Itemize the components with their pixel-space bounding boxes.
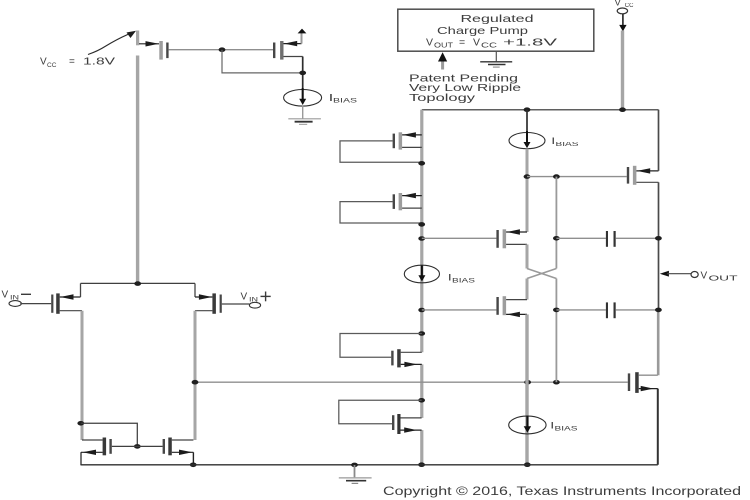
transistor QU (cross-coupled PMOS upper) <box>496 229 527 248</box>
wire: middle rail lower <box>420 430 423 465</box>
node x556 top junction <box>553 174 560 179</box>
transistor N2 (diode NMOS bottom) <box>392 414 422 434</box>
wire: Q4 source riser <box>194 283 196 297</box>
svg-text:Charge Pump: Charge Pump <box>437 25 528 37</box>
wire: VCC rail upper segment <box>136 31 139 46</box>
label VOUT = VCC +1.8V <box>426 37 557 50</box>
wire: VIN+ gate lead <box>222 303 250 305</box>
svg-text:V: V <box>473 37 480 49</box>
node x556 cap1 junction <box>553 236 560 241</box>
ground symbol GND3 <box>339 465 372 483</box>
wire: IBIAS1 to ground <box>302 106 304 119</box>
terminal VCC circle <box>617 8 627 14</box>
node long gate line start <box>192 380 199 385</box>
svg-text:I: I <box>449 273 452 283</box>
wire: P2 gate feedback box <box>340 202 422 223</box>
svg-text:V: V <box>426 37 433 49</box>
wire: crossover diagonal B <box>527 269 556 279</box>
wire: VCC rail lower segment (down to diff pair tail) <box>136 56 139 284</box>
node top bus x IBIAS2 <box>524 107 531 112</box>
svg-text:I: I <box>551 421 554 431</box>
capacitor C2 <box>556 302 658 318</box>
svg-text:Regulated: Regulated <box>461 13 534 25</box>
wire: middle rail upper <box>420 110 423 353</box>
wire: M4 source riser <box>192 452 194 465</box>
node P1 drain junction <box>418 161 425 166</box>
wire: right rail lower <box>657 389 659 465</box>
label IBIAS 3 <box>449 273 476 285</box>
power stub at Q2 source <box>298 29 307 44</box>
svg-text:1.8V: 1.8V <box>83 57 116 68</box>
VCC arrowhead pointing down <box>619 25 626 32</box>
wire: middle rail mid <box>420 364 423 418</box>
wire: gate bus down to mirror drain node <box>222 50 303 73</box>
wire: right rail upper <box>658 110 660 171</box>
transistor M3 (NMOS mirror left) <box>81 438 112 456</box>
wire: mirror gate bus <box>112 445 163 447</box>
label IBIAS 2 <box>552 136 579 148</box>
terminal VIN- circle <box>9 301 21 307</box>
wire: mirror drain-gate link <box>81 423 138 446</box>
wire: long gate line to NR <box>195 381 628 383</box>
node ground stub junction <box>351 463 358 468</box>
wire: PR gate line <box>527 176 627 178</box>
node right rail cap2 <box>655 308 662 313</box>
svg-text:BIAS: BIAS <box>556 142 579 148</box>
wire: VCC terminal lead <box>622 14 624 28</box>
wire: gate line to QL <box>422 309 497 311</box>
svg-text:V: V <box>241 292 248 303</box>
transistor N1 (diode NMOS middle) <box>391 349 422 367</box>
node right rail cap1 <box>655 236 662 241</box>
label VOUT <box>701 271 739 283</box>
block: Regulated Charge Pump box <box>398 9 594 51</box>
current source IBIAS4 <box>509 416 546 434</box>
wire: x556 rail upper <box>555 177 557 269</box>
current source IBIAS1 <box>284 88 322 106</box>
wire: P1 gate feedback box <box>340 141 422 162</box>
wire: x556 rail lower <box>555 279 557 383</box>
svg-text:BIAS: BIAS <box>452 279 475 285</box>
transistor P2 (diode PMOS lower middle) <box>393 193 422 210</box>
wire: Q3 source riser <box>80 283 82 297</box>
transistor Q4 (PMOS diff pair right) <box>195 293 222 313</box>
annotation squiggle arrow to VCC rail <box>88 31 136 55</box>
svg-text:=: = <box>69 57 75 68</box>
svg-text:CC: CC <box>481 43 497 50</box>
node gate-line junction to QL <box>418 308 425 313</box>
node M4 source x ground rail <box>190 463 197 468</box>
svg-text:V: V <box>701 271 708 282</box>
wire: VIN- gate lead <box>20 303 51 305</box>
node mirror gate junction <box>134 444 141 449</box>
transistor P1 (diode PMOS upper middle) <box>393 132 422 149</box>
svg-text:V: V <box>2 290 9 301</box>
wire: gate bus Q1-Q2 <box>169 49 273 51</box>
node Q2 drain-gate junction <box>299 71 306 76</box>
wire: VCC rail down to top bus <box>621 31 624 110</box>
node long gate line x556 <box>553 380 560 385</box>
svg-text:I: I <box>552 136 555 146</box>
wire: diff pair tail rail <box>81 282 196 284</box>
wire: gate line to QU <box>422 237 497 239</box>
svg-text:IN: IN <box>249 297 258 304</box>
svg-text:=: = <box>459 37 465 49</box>
label IBIAS 4 <box>551 421 578 433</box>
label VCC terminal <box>615 0 635 9</box>
svg-text:Copyright © 2016, Texas Instru: Copyright © 2016, Texas Instruments Inco… <box>383 486 741 498</box>
label VIN- <box>2 290 32 302</box>
wire: Q3 drain rail down <box>81 311 84 440</box>
wire: x527 below crossover <box>526 279 529 300</box>
node gate bus junction <box>219 47 226 52</box>
current source IBIAS2 <box>509 110 545 149</box>
wire: M3 source riser <box>80 452 82 465</box>
svg-text:+1.8V: +1.8V <box>503 37 557 49</box>
wire: N2 gate feedback box <box>339 400 422 424</box>
wire: top horizontal bus <box>422 109 659 111</box>
node N2 feedback top junction <box>418 398 425 403</box>
node x527 gate junction <box>524 174 531 179</box>
svg-text:V: V <box>40 57 47 68</box>
wire: x527 rail lower <box>525 314 528 464</box>
transistor PR (PMOS top right) <box>627 166 659 185</box>
svg-text:OUT: OUT <box>434 43 454 50</box>
wire: ground rail bottom <box>81 464 658 466</box>
node gate-line junction to QU <box>418 236 425 241</box>
label VIN+ <box>241 292 271 304</box>
transistor NR (NMOS bottom right) <box>628 372 658 393</box>
node x527 x ground rail <box>524 462 531 467</box>
node x556 cap2 junction <box>553 308 560 313</box>
transistor Q2 (PMOS top mirror) <box>273 41 303 60</box>
wire: Q2 drain down to IBIAS1 <box>302 57 304 99</box>
wire: crossover diagonal A <box>527 269 556 279</box>
node P2 drain junction <box>418 222 425 227</box>
node diff tail junction <box>134 281 141 286</box>
capacitor C1 <box>556 231 658 247</box>
transistor M4 (NMOS mirror right) <box>163 438 194 456</box>
terminal VOUT <box>660 271 698 278</box>
svg-text:OUT: OUT <box>709 276 739 283</box>
wire: x527 rail upper <box>526 149 529 232</box>
node long gate line x527 <box>524 380 531 385</box>
transistor QL (cross-coupled PMOS lower) <box>496 296 527 317</box>
label VCC = 1.8V <box>40 57 116 70</box>
svg-text:BIAS: BIAS <box>333 99 357 105</box>
svg-text:CC: CC <box>625 3 634 9</box>
wire: N1 gate feedback box <box>340 334 422 358</box>
svg-text:BIAS: BIAS <box>555 427 578 433</box>
svg-text:CC: CC <box>47 62 57 69</box>
ground symbol GND1 <box>288 119 321 125</box>
annotation arrow pointing up to box <box>438 52 447 69</box>
wire: x527 mid segment <box>526 244 529 268</box>
svg-text:V: V <box>615 0 622 9</box>
terminal VIN+ circle <box>249 302 260 308</box>
node Q3 drain mirror junction <box>77 421 84 426</box>
svg-text:Topology: Topology <box>409 92 476 104</box>
wire: Q4 drain rail down <box>194 311 197 440</box>
ground symbol GND2 under box <box>480 52 512 68</box>
node N1 feedback top junction <box>418 331 425 336</box>
wire: right rail mid <box>658 182 660 310</box>
transistor Q1 (PMOS top-left) <box>139 41 169 60</box>
transistor Q3 (PMOS diff pair left) <box>51 293 82 313</box>
node top bus x VCC rail <box>619 107 626 112</box>
node N2 source x ground rail <box>418 462 425 467</box>
current source IBIAS3 <box>404 265 439 283</box>
wire: right rail gray segment <box>657 310 660 375</box>
label IBIAS 1 <box>330 92 358 105</box>
